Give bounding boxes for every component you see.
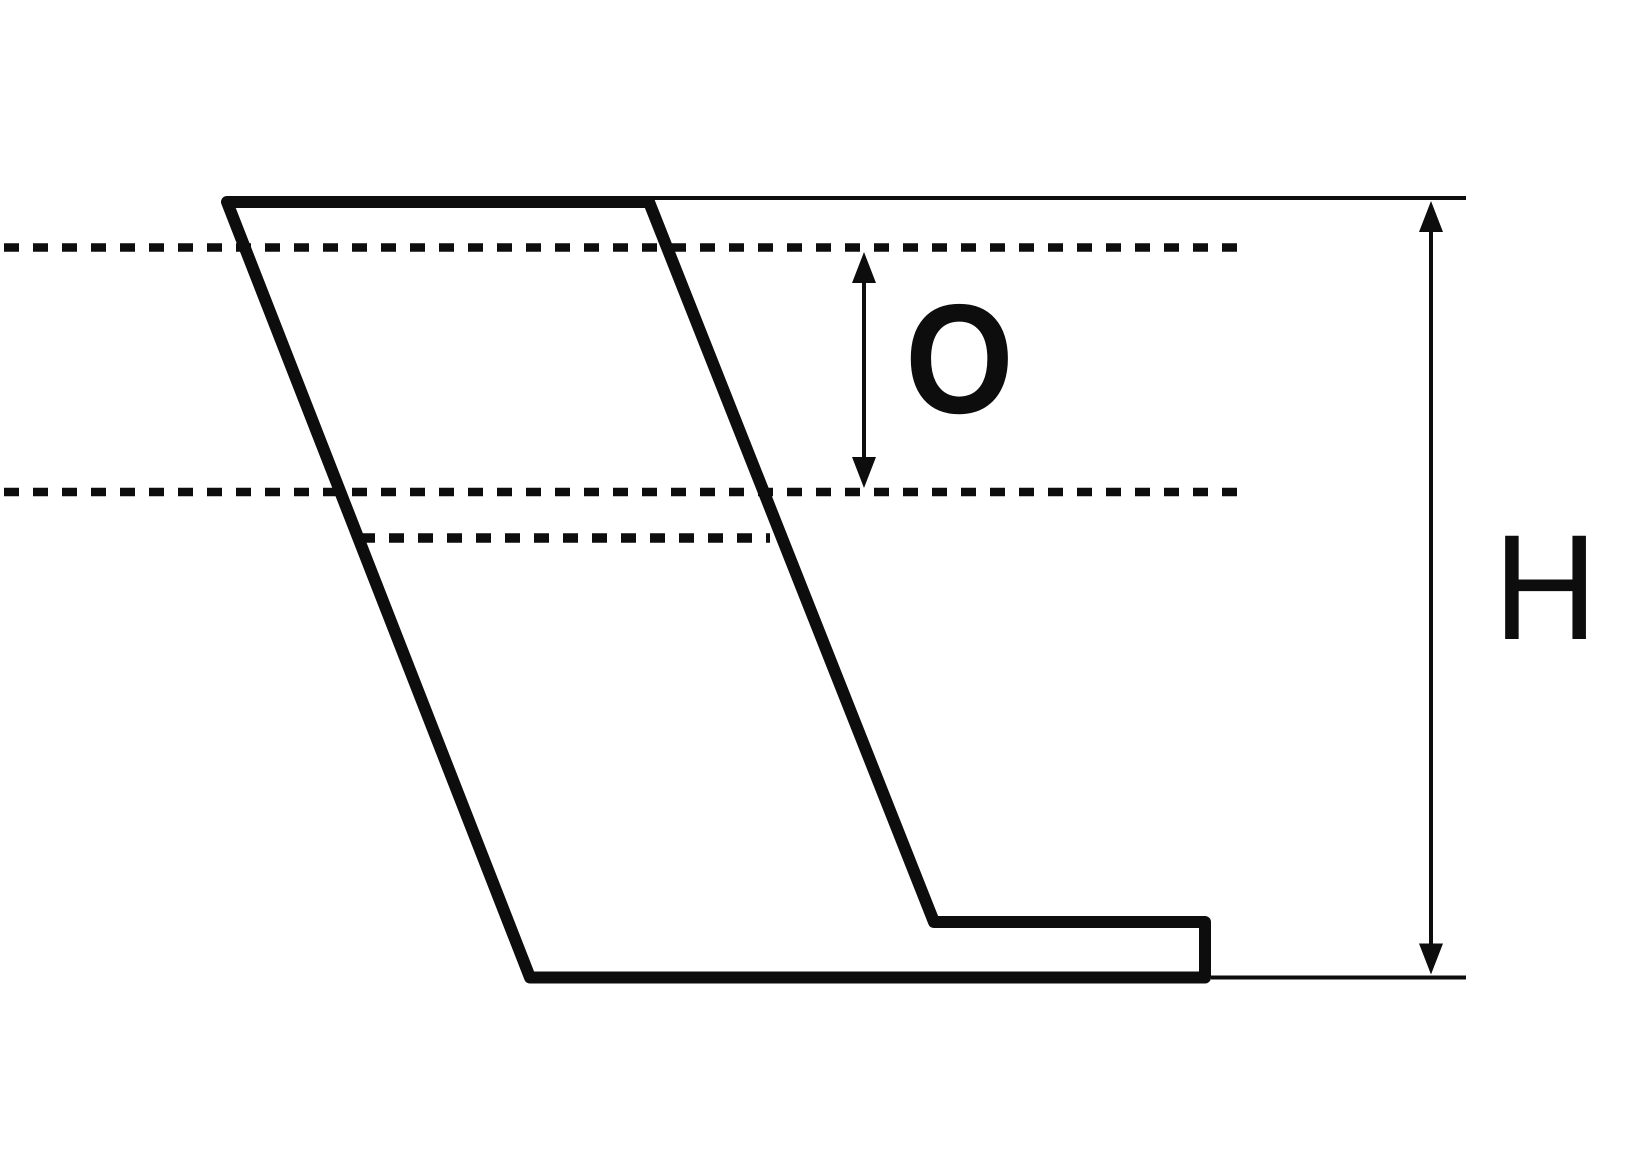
arrowhead H bottom — [1419, 944, 1443, 975]
arrowhead O top — [852, 252, 876, 283]
thin extension line top — [645, 196, 1466, 200]
dimension arrow O (shaft) — [862, 278, 866, 462]
svg-text:O: O — [905, 273, 1014, 447]
thin extension line bottom — [1211, 976, 1466, 980]
dimension arrow H (shaft) — [1429, 228, 1433, 948]
arrowhead O bottom — [852, 457, 876, 488]
dashed reference line middle (water line 2) — [4, 488, 1243, 497]
svg-text:H: H — [1493, 505, 1597, 672]
dashed reference line top (water line 1) — [4, 243, 1243, 252]
arrowhead H top — [1419, 201, 1443, 232]
dashed fold line (short, inside profile) — [360, 533, 770, 543]
bag profile outline — [227, 202, 1205, 978]
